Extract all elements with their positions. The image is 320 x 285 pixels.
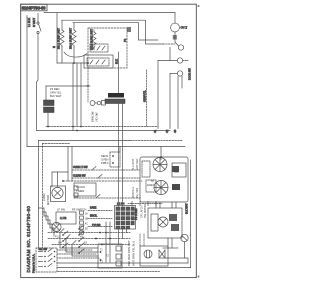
wire mid v3 — [80, 63, 82, 127]
wire fan feed — [160, 147, 162, 160]
label col bottom — [127, 240, 136, 266]
fuse F1 line — [37, 14, 39, 23]
svg-text:BR-2 SURF UNIT: BR-2 SURF UNIT — [68, 27, 72, 49]
strip blades — [90, 60, 105, 64]
contact tags — [85, 213, 88, 231]
wire return A — [57, 262, 188, 264]
svg-text:BLK WHT: BLK WHT — [186, 203, 189, 214]
svg-text:BLK RED ORN GRY: BLK RED ORN GRY — [127, 240, 131, 266]
artifact dot top right — [198, 5, 200, 7]
wire right drop2 — [169, 74, 171, 129]
svg-text:3B: 3B — [85, 219, 88, 221]
motor M1 feed — [67, 147, 69, 173]
wire sense drop — [87, 86, 89, 102]
plug labels — [91, 111, 99, 122]
wire L2 left drop — [26, 16, 28, 147]
wire bottom link2 — [160, 258, 188, 263]
grid stubs — [119, 229, 127, 245]
switch blades — [92, 46, 105, 50]
junction cross — [86, 85, 90, 87]
dark marks — [172, 184, 180, 190]
sw row2 — [48, 232, 130, 234]
latch motor box — [148, 208, 182, 238]
svg-text:41: 41 — [153, 129, 157, 133]
relay rect — [172, 163, 186, 177]
connector box P1 dashed — [88, 28, 127, 68]
row tag marks — [100, 250, 109, 264]
svg-text:BK-1 SURF UNIT: BK-1 SURF UNIT — [56, 28, 60, 49]
fuse F1 — [37, 22, 41, 34]
svg-text:L2 8: L2 8 — [55, 230, 60, 233]
wire spur drop — [45, 86, 47, 100]
fan label extra — [151, 180, 154, 187]
selector line1 — [57, 249, 92, 251]
plug contact a — [90, 101, 95, 106]
svg-text:4C: 4C — [85, 224, 88, 226]
wire h dashed mid — [63, 180, 142, 182]
contacts col B — [80, 211, 84, 234]
svg-text:DIAGRAM NO. 8104P790-60: DIAGRAM NO. 8104P790-60 — [26, 206, 31, 273]
fan M3 — [154, 181, 168, 195]
wire bus D — [27, 146, 185, 148]
wire mid v2 — [76, 63, 78, 127]
surface element R1 — [60, 20, 64, 63]
wire bus A — [46, 126, 158, 128]
relay block K1 — [44, 100, 55, 106]
svg-text:CLEAN SW: CLEAN SW — [73, 175, 86, 178]
relay blob A — [172, 166, 179, 172]
motor M1 top box — [52, 172, 68, 181]
wire neutral h — [57, 62, 88, 64]
wire right riser — [190, 160, 192, 268]
wire bus B — [37, 130, 171, 132]
svg-text:BLK: BLK — [115, 59, 119, 64]
right dark marks b — [171, 224, 179, 231]
clock row1 — [72, 169, 140, 171]
wire neutral drop — [56, 13, 58, 63]
latch inner rect — [151, 214, 158, 231]
mid verticals — [106, 222, 110, 262]
clock box — [74, 183, 96, 196]
svg-text:5D: 5D — [85, 229, 88, 231]
svg-text:BLK WHT: BLK WHT — [50, 94, 62, 98]
svg-text:Printed in U.S.A.: Printed in U.S.A. — [31, 254, 35, 273]
wire bus C dashed — [130, 140, 183, 142]
motor label — [42, 193, 50, 205]
svg-text:N WHT: N WHT — [32, 18, 36, 27]
oven sensor cluster — [110, 147, 120, 168]
svg-text:TIMER: TIMER — [76, 189, 84, 193]
svg-text:OVEN LT SW: OVEN LT SW — [73, 166, 88, 169]
fan box — [140, 157, 188, 202]
svg-text:BROIL: BROIL — [90, 215, 98, 218]
motor M1 box — [51, 186, 66, 202]
svg-text:L1 H2: L1 H2 — [60, 217, 67, 220]
wire dashed to door sw — [163, 43, 175, 45]
wire right drop — [157, 61, 159, 129]
wire S3 drop b — [181, 77, 183, 89]
TB label rows — [50, 87, 62, 98]
clock text — [76, 185, 85, 193]
svg-text:L1 BLK: L1 BLK — [27, 18, 31, 27]
svg-text:WHT BRN YEL BLU: WHT BRN YEL BLU — [132, 241, 136, 266]
surface element R2 — [72, 23, 76, 63]
clock row blades — [92, 167, 102, 199]
junction n1 — [73, 62, 75, 64]
motor M1 stem — [51, 172, 53, 187]
svg-text:2A: 2A — [85, 213, 88, 216]
wire motor link — [57, 172, 59, 187]
extra row — [88, 226, 112, 228]
latch motor M4 — [158, 217, 168, 227]
svg-text:VIO 3W: VIO 3W — [95, 112, 99, 122]
wire col dashed b — [143, 234, 145, 246]
row tags a — [55, 230, 88, 245]
svg-text:BAKE: BAKE — [90, 207, 97, 210]
control box outer — [39, 140, 131, 142]
svg-text:SENS: SENS — [101, 154, 108, 158]
fan feed junction — [160, 156, 162, 158]
title box — [21, 4, 47, 11]
ign circle — [144, 250, 152, 258]
conn grid P3 — [115, 206, 136, 230]
wire bundle drop — [118, 52, 120, 93]
blade stack A — [62, 231, 68, 248]
upper sw row b — [88, 218, 112, 220]
sensor labels — [101, 154, 109, 165]
svg-text:8104P790-60: 8104P790-60 — [22, 5, 46, 10]
svg-text:GRY RED: GRY RED — [136, 159, 139, 170]
svg-text:CONV: CONV — [42, 193, 46, 201]
small comp col — [74, 186, 78, 197]
board dots — [100, 251, 102, 261]
junction row2 — [105, 232, 107, 234]
blade stack B — [78, 225, 84, 254]
wire fuse drop — [37, 34, 39, 131]
oven lamp E1 — [171, 23, 180, 32]
right bus verticals — [156, 202, 176, 248]
lamp B — [181, 234, 188, 241]
svg-text:PRB 4: PRB 4 — [101, 161, 109, 165]
sw row3 — [48, 238, 130, 240]
extra contacts — [95, 232, 103, 246]
wire lamp B drop — [184, 242, 186, 258]
switch row box — [90, 44, 108, 52]
svg-text:OV LT: OV LT — [181, 27, 188, 30]
clock row3 — [74, 197, 140, 199]
svg-text:43: 43 — [173, 129, 177, 133]
selector box — [36, 248, 57, 272]
svg-text:OVEN: OVEN — [101, 158, 108, 162]
svg-text:HI: HI — [151, 180, 154, 183]
svg-text:ORN BLU: ORN BLU — [132, 187, 135, 198]
latch label col — [141, 204, 148, 218]
bowtie comp — [159, 250, 165, 258]
ign hatches — [147, 251, 150, 258]
pilot lamp — [52, 222, 61, 231]
control box left — [38, 141, 40, 249]
wire bottom dashed — [58, 271, 160, 273]
comp boxes — [146, 180, 156, 192]
svg-text:LO: LO — [151, 184, 154, 187]
surface element R3 — [92, 30, 96, 50]
label BLK blob — [173, 35, 177, 40]
svg-text:BLK WHT: BLK WHT — [132, 158, 135, 170]
terminal strip inner — [87, 58, 109, 66]
wire return B — [57, 267, 191, 269]
door switch S1 — [175, 42, 184, 50]
infinite sw row labels — [57, 208, 87, 212]
curved jumper — [64, 52, 87, 57]
wire lamp drop — [174, 13, 176, 23]
stair wire a — [39, 208, 53, 232]
svg-text:MOTOR: MOTOR — [46, 195, 50, 205]
junction row3 — [109, 238, 111, 240]
fan labels col — [132, 158, 139, 198]
selector line3 — [57, 257, 100, 259]
svg-text:SEL SW: SEL SW — [39, 249, 48, 251]
clock row2 — [72, 177, 140, 179]
fan inner rect — [142, 161, 150, 177]
right dark marks — [169, 214, 177, 221]
svg-text:N: N — [52, 46, 56, 48]
junction n2 — [87, 62, 89, 64]
plug link — [95, 102, 97, 104]
board comps — [116, 246, 121, 266]
elbow c — [72, 245, 98, 257]
terminal strip box — [84, 55, 113, 68]
wire L1 top bus — [44, 12, 175, 14]
relay block K2 — [44, 107, 55, 113]
control box inner left — [42, 144, 44, 249]
relay board box — [98, 244, 122, 268]
svg-text:P3 CONN: P3 CONN — [134, 208, 138, 220]
elbow a — [60, 233, 98, 249]
wire elem drop b — [122, 104, 124, 207]
elbow b — [66, 239, 98, 253]
svg-text:GRN YEL: GRN YEL — [50, 91, 62, 95]
wire lamp to switch — [174, 32, 176, 42]
clock feed — [71, 147, 73, 182]
door switch S2 — [158, 58, 189, 63]
wire surface bus 2 — [73, 23, 158, 40]
plug contact b — [97, 101, 101, 105]
bake element label — [108, 93, 124, 98]
motor M1 — [52, 187, 63, 198]
wire shield dashed — [146, 70, 148, 127]
svg-text:RLY: RLY — [174, 169, 179, 173]
wire sense dashed — [87, 68, 89, 86]
wire S3 drop a — [177, 77, 179, 129]
blade row2 — [60, 229, 64, 233]
svg-text:BRN 2W: BRN 2W — [91, 111, 95, 122]
border frame — [21, 4, 197, 277]
bus junction dots — [47, 126, 82, 132]
ign box — [140, 246, 168, 266]
sw row4 — [52, 244, 130, 246]
svg-text:P1: P1 — [123, 38, 127, 42]
blade row4 — [72, 241, 76, 245]
svg-text:YEL TAN: YEL TAN — [136, 188, 139, 198]
wire col dashed a — [139, 234, 141, 246]
wire elem drop a — [118, 104, 120, 207]
selector rows — [39, 249, 56, 268]
wire sw interlink — [169, 48, 171, 61]
plug square — [102, 101, 106, 106]
svg-text:P2 RED: P2 RED — [50, 87, 59, 91]
wire ground spur — [46, 85, 88, 87]
wire K2 drop — [47, 113, 49, 127]
sw box row1 — [56, 212, 76, 224]
blade row3 — [66, 235, 70, 239]
wire surface bus 1 — [62, 20, 163, 44]
svg-text:CLOCK: CLOCK — [76, 185, 85, 189]
wire bottom link1 — [163, 247, 178, 249]
door switch S3 — [170, 71, 183, 76]
upper sw row a — [88, 210, 112, 212]
bake element body — [105, 99, 125, 104]
control box inner top — [43, 143, 71, 145]
cooling fan M2 — [153, 158, 167, 172]
svg-text:42: 42 — [165, 129, 169, 133]
svg-text:T2: T2 — [106, 256, 109, 258]
fan terminal row — [128, 202, 162, 206]
stair wire b — [43, 212, 55, 236]
svg-text:DOOR SW: DOOR SW — [189, 68, 192, 80]
svg-text:SW MOTOR: SW MOTOR — [144, 204, 147, 218]
svg-text:LF SW: LF SW — [57, 208, 65, 212]
svg-text:1 2 3 4: 1 2 3 4 — [117, 203, 125, 206]
svg-text:GRN/YEL: GRN/YEL — [143, 90, 147, 102]
junction m — [62, 180, 64, 182]
junction blob — [127, 27, 131, 32]
wire mid v1 — [72, 63, 74, 131]
svg-text:S2: S2 — [84, 242, 88, 245]
selector line2 — [57, 253, 96, 255]
artifact dot bottom right — [198, 276, 200, 278]
